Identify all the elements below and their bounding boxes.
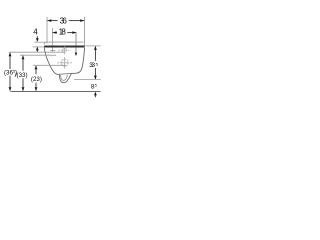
dimension 4 down arrow bbox=[36, 36, 38, 39]
left dim line 3 (x=36) bbox=[35, 66, 38, 92]
dimension 4 up arrow bbox=[36, 47, 39, 51]
dimension 4 upper extension line (lid top level) bbox=[34, 41, 45, 43]
dimension 36 left arrow bbox=[47, 19, 51, 22]
svg-text:33: 33 bbox=[89, 62, 95, 69]
seat lid top line bbox=[44, 42, 83, 45]
seat dark band bbox=[44, 46, 84, 48]
floor line bbox=[10, 90, 100, 92]
outlet centerline (x=76) with down arrow bbox=[75, 33, 77, 53]
dimension 18 left arrow bbox=[53, 31, 57, 34]
dim 8 bottom arrow (below floor) bbox=[94, 92, 97, 96]
svg-text:18: 18 bbox=[59, 28, 67, 37]
toilet bowl front edge bbox=[44, 48, 59, 75]
svg-text:4: 4 bbox=[33, 28, 38, 37]
svg-text:36: 36 bbox=[60, 17, 68, 26]
dimension 18 right arrow bbox=[72, 31, 76, 34]
crosshair circle C2 (outlet) bbox=[57, 57, 72, 69]
bowl U-trap inner arc bbox=[61, 75, 68, 81]
svg-text:5: 5 bbox=[96, 61, 99, 66]
dimension 36 right arrow bbox=[80, 19, 84, 22]
svg-text:5: 5 bbox=[95, 83, 98, 88]
left dim line 1 (x=10) bbox=[9, 52, 12, 91]
bowl U-trap outer bbox=[59, 73, 72, 82]
left dim line 2 (x=23) bbox=[22, 55, 25, 91]
extension line level 3 (y=65.3) bbox=[33, 64, 66, 66]
crosshair circle C1 (water inlet) bbox=[58, 46, 70, 54]
wall extension line (x=84.5) bbox=[84, 17, 86, 47]
svg-text:(23): (23) bbox=[31, 76, 42, 83]
flush connection cross tick bbox=[50, 49, 55, 51]
extension line level 1 (y=52.2) bbox=[9, 51, 64, 53]
dimension 36 line bbox=[47, 20, 57, 22]
front extension line (x=47) bbox=[46, 17, 48, 44]
bowl back edge bbox=[72, 48, 85, 74]
dimension 18 line bbox=[53, 32, 57, 34]
dim 33 vertical line bbox=[94, 46, 96, 60]
dimension 18 left extension (x=52.4) bbox=[51, 28, 53, 52]
dimension 4 lower extension line (rim level) bbox=[33, 46, 45, 48]
extension line level 2 (y=55.2) bbox=[20, 54, 56, 56]
svg-text:/(33): /(33) bbox=[15, 72, 28, 79]
right extension line top (seat level y=45.9) bbox=[86, 45, 101, 47]
right extension line bottom rear (y=79.6) bbox=[74, 79, 101, 81]
trap top hidden edge bbox=[59, 72, 72, 75]
